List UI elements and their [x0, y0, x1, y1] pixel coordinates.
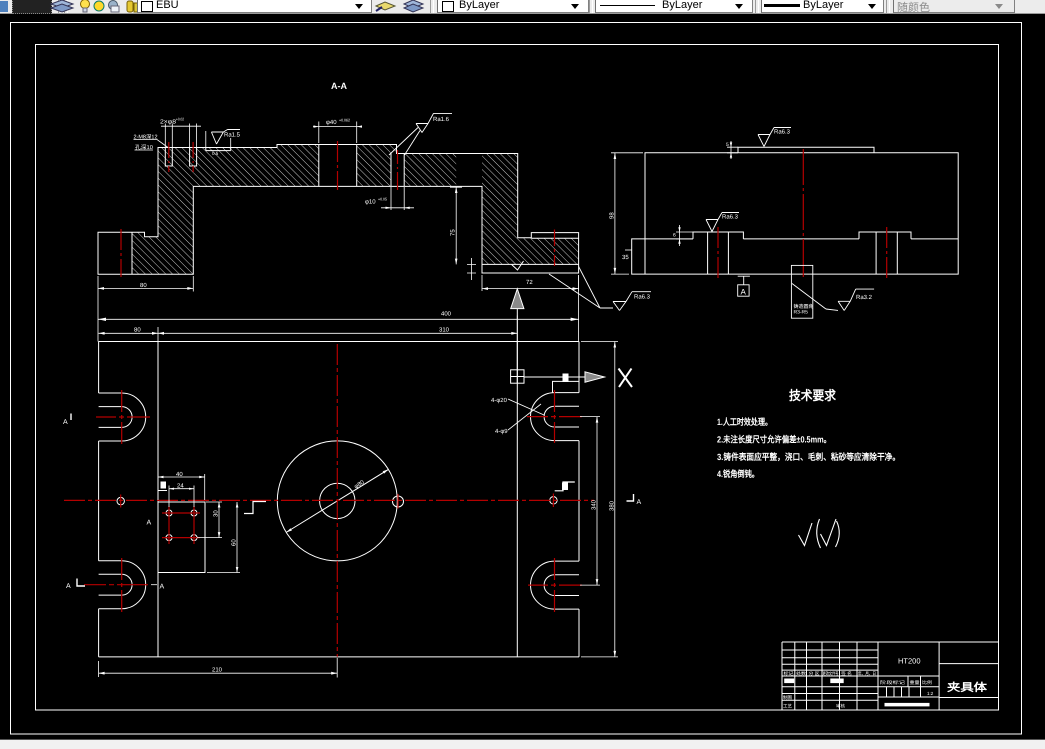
step above top-right slot	[553, 381, 580, 392]
svg-text:φ10: φ10	[365, 199, 376, 206]
dim arrows	[98, 125, 579, 321]
dim 72 under right foot	[482, 275, 579, 291]
toolbar strip (AutoCAD layers/properties toolbars, cut off at top)	[0, 0, 1045, 14]
scale bar	[885, 703, 930, 707]
svg-text:40: 40	[176, 471, 183, 478]
main vertical dividers	[878, 642, 939, 710]
svg-text:+0.02: +0.02	[176, 117, 185, 122]
svg-text:80: 80	[134, 327, 141, 334]
small hole cross ticks	[121, 494, 554, 509]
annotation texts	[134, 117, 534, 318]
svg-text:Ra1.5: Ra1.5	[224, 132, 241, 139]
section outline	[98, 145, 579, 275]
svg-text:5: 5	[726, 142, 729, 148]
UCS X axis	[524, 376, 585, 378]
bolt circle 1	[166, 510, 172, 516]
svg-text:310: 310	[439, 327, 450, 334]
icon: dark selected swatch	[12, 0, 52, 14]
svg-text:1:2: 1:2	[927, 691, 934, 696]
datum A symbol below left hole	[738, 276, 750, 296]
jog blob left inner line	[161, 482, 167, 489]
svg-text:签 名: 签 名	[841, 671, 852, 676]
small hole left	[117, 497, 124, 504]
svg-text:98: 98	[609, 212, 616, 219]
inner vertical right	[516, 342, 518, 657]
main horizontal centerline	[64, 499, 594, 501]
svg-text:+0.05: +0.05	[378, 197, 388, 202]
icon: partial left icon	[0, 1, 8, 12]
dim 7 right strip	[467, 258, 476, 280]
dim 400 bottom shared	[98, 275, 579, 342]
icon: layer previous	[401, 0, 426, 13]
svg-text:24: 24	[177, 483, 184, 490]
svg-text:工艺: 工艺	[783, 704, 792, 709]
icon: light bulb	[79, 0, 91, 13]
svg-text:制图: 制图	[783, 695, 792, 700]
svg-text:标记: 标记	[784, 671, 795, 676]
finish mark checks	[799, 519, 840, 548]
red centerlines plan	[64, 344, 594, 657]
main vertical centerline	[336, 344, 338, 657]
color combo ByLayer	[437, 0, 589, 13]
surface symbol Ra1.6 at phi10 leaders	[389, 128, 420, 156]
middle section rows	[878, 676, 939, 697]
title block outer	[782, 642, 998, 710]
right foot hatch top boundary	[531, 237, 578, 239]
bolt circle 2	[191, 510, 197, 516]
svg-text:4-φ9: 4-φ9	[495, 428, 508, 435]
Ra6.3 symbol on top lip	[758, 128, 791, 147]
leader 4-phi20	[508, 399, 544, 415]
svg-text:3.铸件表面应平整，浇口、毛刺、粘砂等应清除干净。: 3.铸件表面应平整，浇口、毛刺、粘砂等应清除干净。	[717, 452, 900, 462]
finish vee on right foot strip	[512, 261, 524, 270]
icon: sun	[92, 0, 106, 13]
dim 80 foot	[98, 276, 193, 292]
Ra6.3 symbol on left notch	[706, 213, 739, 232]
svg-text:Ra6.3: Ra6.3	[774, 129, 791, 136]
plan left edge segments	[98, 342, 100, 657]
centerline left foot	[120, 229, 122, 277]
hatch: top plate between holes	[357, 145, 397, 187]
svg-text:A: A	[147, 520, 152, 527]
hatch: right wall	[482, 154, 518, 265]
hole walls right	[876, 232, 897, 274]
linetype combo ByLayer	[595, 0, 753, 13]
svg-text:2.未注长度尺寸允许偏差±0.5mm。: 2.未注长度尺寸允许偏差±0.5mm。	[717, 435, 831, 445]
dim 340 right	[580, 417, 600, 585]
tapped hole left	[165, 148, 172, 167]
bolt circle 3	[166, 535, 172, 541]
svg-text:1.人工时效处理。: 1.人工时效处理。	[717, 417, 772, 427]
axis centerline	[802, 149, 804, 277]
cut arrow marks A letters	[63, 419, 642, 591]
plan outline top/bottom edges	[99, 342, 579, 657]
dim 380 right	[581, 342, 618, 657]
surface symbol Ra1.5 on recess	[211, 130, 240, 145]
dim phi40 ext+line	[313, 122, 362, 144]
lineweight combo ByLayer	[761, 0, 884, 13]
signature blobs	[784, 679, 794, 684]
svg-text:2×φ8: 2×φ8	[160, 119, 177, 126]
leader hole depth	[135, 149, 154, 151]
right foot strip boundary	[482, 263, 579, 265]
icon: lock/globe	[107, 0, 120, 13]
svg-text:分 区: 分 区	[809, 671, 821, 676]
dim phi10 ext+line	[381, 187, 414, 210]
bolt pattern centerlines	[162, 506, 200, 544]
svg-text:A: A	[66, 583, 71, 590]
hole walls left	[708, 232, 729, 274]
svg-text:年、月、日: 年、月、日	[858, 671, 876, 676]
plan dim arrows	[99, 332, 617, 675]
top lip	[738, 147, 874, 153]
side view main outline	[632, 153, 959, 274]
svg-text:R3-R5: R3-R5	[794, 310, 809, 316]
slot TL centerlines	[96, 390, 150, 444]
tapped hole right	[190, 148, 197, 167]
diameter line	[286, 469, 389, 532]
leader 4-phi9	[508, 404, 541, 430]
icon: layers stack	[49, 0, 75, 13]
svg-text:35: 35	[622, 254, 629, 261]
boss rectangle	[158, 502, 205, 573]
dims side view	[611, 141, 738, 274]
svg-text:4.锐角倒钝。: 4.锐角倒钝。	[717, 469, 759, 479]
dim 75 wall vertical	[450, 187, 462, 264]
dimensions and annotation (white)	[98, 122, 579, 342]
center hole circle	[320, 483, 355, 518]
svg-text:Ra6.3: Ra6.3	[722, 214, 739, 221]
dim 24 holes	[169, 486, 194, 508]
svg-text:处数: 处数	[796, 671, 807, 676]
slot top-left	[99, 393, 146, 441]
leader 2-M8	[134, 140, 169, 148]
svg-text:75: 75	[450, 229, 457, 236]
centerline phi40	[337, 141, 339, 190]
leader flag box below bottom edge	[791, 265, 826, 318]
recess ext lines	[206, 131, 231, 147]
svg-text:400: 400	[441, 311, 452, 318]
phi40 hole walls	[319, 145, 357, 187]
svg-text:技术要求: 技术要求	[789, 388, 837, 403]
small hole middle-right	[393, 496, 404, 507]
svg-text:340: 340	[591, 499, 598, 510]
dim 310/80 line	[99, 316, 518, 342]
svg-text:HT200: HT200	[898, 657, 921, 666]
bolt circle 4	[191, 535, 197, 541]
UCS X arrowhead	[585, 372, 605, 382]
svg-text:孔深10: 孔深10	[135, 144, 153, 151]
hatch: right foot	[482, 238, 579, 264]
header tiny texts	[783, 671, 934, 709]
red centerlines side view	[718, 149, 887, 278]
svg-text:6: 6	[673, 233, 676, 239]
section line jog mark left	[244, 502, 266, 514]
dim 2xphi8 ext+line	[161, 124, 201, 148]
svg-text:72: 72	[526, 279, 533, 286]
plot style combo (disabled)	[893, 0, 1015, 13]
svg-text:阶段标记: 阶段标记	[880, 680, 906, 685]
phi10 hole walls	[391, 154, 404, 187]
right hole centerline	[886, 227, 888, 278]
top recess line	[206, 148, 231, 151]
slot BL centerlines	[84, 558, 148, 612]
UCS origin box	[511, 370, 524, 383]
hatched cut area: left wall	[132, 145, 579, 275]
centerline right foot	[554, 230, 556, 267]
X axis label	[619, 369, 633, 388]
red centerlines of section	[121, 141, 555, 277]
slot top-right	[531, 393, 580, 441]
dim right of boss 60	[207, 502, 240, 573]
surface symbol Ra6.3 right of foot with leaders	[549, 267, 651, 311]
marker on X axis	[563, 374, 569, 383]
icon: printer/pencil partial	[126, 0, 140, 13]
svg-text:A-A: A-A	[331, 81, 347, 91]
svg-text:比例: 比例	[922, 680, 933, 685]
icon: make layer current	[373, 0, 398, 13]
svg-text:A: A	[637, 499, 642, 506]
groove line segments	[645, 238, 958, 240]
left edge of main body	[644, 153, 646, 274]
center bore circle	[277, 441, 397, 561]
svg-text:+0.062: +0.062	[339, 118, 351, 123]
slot bottom-right	[531, 561, 580, 609]
hatch: top plate right of phi10 hole	[404, 154, 456, 187]
svg-text:0.5: 0.5	[212, 151, 219, 156]
svg-text:60: 60	[231, 539, 238, 546]
foot divider line	[131, 232, 133, 274]
dim 98	[611, 153, 643, 274]
left grid vertical lines	[795, 642, 857, 710]
centerline phi10	[397, 150, 399, 190]
Ra3.2 symbol right of flag	[826, 289, 874, 310]
right section row	[939, 664, 998, 698]
dim 40 boss	[158, 474, 205, 500]
layer combo: swatch + EBU	[137, 0, 372, 13]
svg-text:A: A	[160, 584, 165, 591]
dim 35 step	[625, 249, 632, 251]
svg-text:Ra6.3: Ra6.3	[634, 294, 651, 301]
slot BR centerlines	[528, 558, 582, 612]
svg-text:210: 210	[212, 667, 223, 674]
slot TR centerlines	[527, 390, 582, 443]
svg-text:更改文件号: 更改文件号	[823, 671, 839, 676]
svg-text:Ra3.2: Ra3.2	[856, 294, 873, 301]
svg-text:380: 380	[608, 500, 615, 511]
toolbar grips	[58, 0, 62, 13]
centerline tapped holes	[168, 142, 170, 172]
hatch: left wall and foot	[132, 148, 193, 275]
section line jog mark right	[555, 482, 575, 491]
svg-text:4-φ20: 4-φ20	[491, 397, 508, 404]
svg-text:夹具体: 夹具体	[947, 681, 988, 694]
hatch: top plate left of phi40 hole	[193, 145, 318, 187]
plan right edge segments	[578, 342, 580, 657]
svg-text:A: A	[741, 288, 747, 297]
step dim small (6)	[676, 225, 693, 246]
svg-text:30: 30	[213, 510, 220, 517]
svg-text:2-M8深12: 2-M8深12	[134, 134, 158, 141]
left grid horizontal lines	[782, 650, 878, 700]
svg-text:A: A	[63, 419, 68, 426]
small hole right	[550, 497, 557, 504]
UCS Y arrowhead	[511, 289, 524, 309]
left hole centerline	[717, 227, 719, 278]
inner vertical left	[157, 342, 159, 657]
dim right of boss 30	[197, 502, 222, 538]
svg-text:重量: 重量	[910, 680, 921, 685]
plan texts	[134, 327, 615, 674]
svg-text:审核: 审核	[836, 704, 845, 709]
slot bottom-left	[99, 561, 146, 609]
lip tick dim	[727, 141, 738, 159]
plan dimensions	[99, 316, 618, 678]
dim 210 bottom	[99, 658, 338, 678]
svg-text:Ra1.6: Ra1.6	[433, 116, 450, 123]
notch tops	[693, 232, 911, 239]
svg-text:φ40: φ40	[326, 119, 337, 126]
middle small cells	[887, 676, 921, 697]
svg-text:80: 80	[140, 282, 147, 289]
UCS Y stem	[516, 309, 518, 370]
